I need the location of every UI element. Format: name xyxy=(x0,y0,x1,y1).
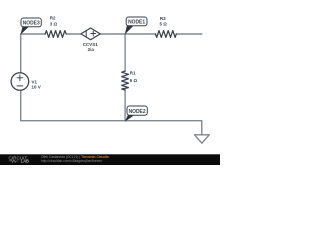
svg-text:6 Ω: 6 Ω xyxy=(130,78,138,83)
svg-text:LAB: LAB xyxy=(21,159,29,164)
svg-text:2ia: 2ia xyxy=(88,47,95,52)
svg-text:http://circuitlab.com/c/8kagwc: http://circuitlab.com/c/8kagwcq5av/theve… xyxy=(41,159,102,163)
svg-text:5 Ω: 5 Ω xyxy=(160,22,168,27)
svg-text:NODE3: NODE3 xyxy=(23,20,40,26)
svg-text:R1: R1 xyxy=(130,71,136,76)
svg-text:R3: R3 xyxy=(160,16,166,21)
svg-text:10 V: 10 V xyxy=(32,84,41,89)
svg-text:3 Ω: 3 Ω xyxy=(50,21,58,26)
svg-text:NODE2: NODE2 xyxy=(129,109,146,115)
svg-text:R2: R2 xyxy=(50,16,56,21)
svg-text:NODE1: NODE1 xyxy=(128,19,145,25)
